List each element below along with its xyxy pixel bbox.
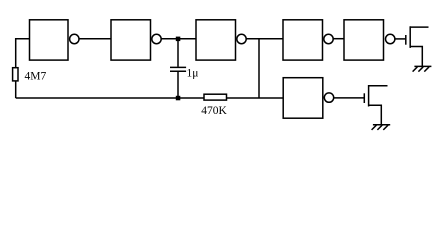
svg-text:1μ: 1μ — [187, 68, 199, 80]
svg-text:4M7: 4M7 — [25, 71, 47, 83]
svg-text:470K: 470K — [201, 105, 227, 117]
